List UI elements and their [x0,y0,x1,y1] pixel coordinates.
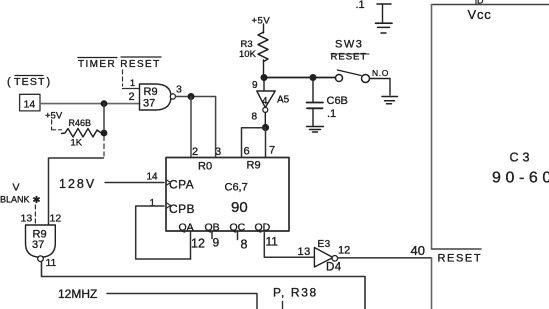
capacitor .1 (top) [356,0,393,23]
wire junction down to IC pin 2 [190,97,192,158]
svg-text:D4: D4 [326,262,342,274]
svg-text:8: 8 [241,238,248,252]
svg-text:9: 9 [213,236,220,250]
switch SW3 [331,39,389,83]
pin stub 9 [211,231,213,239]
svg-text:12MHZ: 12MHZ [58,287,97,301]
wire junction down to IC pin 7 [265,128,267,158]
svg-text:3: 3 [176,84,182,96]
svg-text:R9: R9 [144,86,158,98]
wire switch to ground [370,79,391,96]
svg-text:C6B: C6B [327,95,348,107]
svg-text:128V: 128V [59,177,96,191]
inverter A5 [257,91,290,112]
svg-text:1: 1 [130,78,135,88]
svg-text:.1: .1 [327,108,336,120]
box P,R38 [273,286,318,309]
wire A5 output down [264,112,266,127]
svg-text:37: 37 [143,98,155,110]
svg-text:2: 2 [129,91,135,103]
svg-text:E3: E3 [318,239,331,250]
ground (SW3) [382,97,398,104]
svg-text:QA: QA [179,222,194,234]
svg-text:Vcc: Vcc [468,7,492,22]
svg-text:QD: QD [255,222,271,234]
svg-text:TIMER RESET: TIMER RESET [78,59,161,70]
svg-text:12: 12 [191,237,205,251]
resistor R46B [62,118,104,149]
wire NAND output to IC pins 2,3 [176,97,216,158]
wire 128V to pin 14 [105,182,164,184]
svg-text:✱: ✱ [33,195,41,206]
IC 7490 counter [166,158,289,234]
wire +5V to R3 [263,24,265,33]
svg-text:1K: 1K [71,138,83,149]
big box C3 [432,0,549,309]
svg-text:11: 11 [266,235,279,249]
wire (dashed) below R46B junction [103,136,105,156]
svg-text:R46B: R46B [69,118,92,128]
pin stub 8 [237,231,239,240]
wire (dashed) BLANK to pin 13 [34,205,36,224]
svg-text:90: 90 [231,199,248,216]
label TIMER RESET [78,57,161,70]
svg-text:CPB: CPB [169,202,195,216]
svg-text:R0: R0 [198,161,212,173]
svg-text:1: 1 [150,198,156,209]
ground (top cap) [378,27,390,33]
svg-text:RESET: RESET [331,52,368,63]
svg-text:6: 6 [244,146,250,158]
svg-text:2: 2 [192,146,198,158]
svg-text:TEST: TEST [14,76,46,88]
inverter E3 [314,239,341,274]
svg-text:14: 14 [24,99,36,111]
connector box 14 [20,94,40,111]
svg-text:N.O: N.O [372,68,389,78]
svg-text:90-60: 90-60 [492,170,549,187]
svg-text:C3: C3 [510,151,534,165]
svg-text:8: 8 [252,112,258,123]
wire junction to A5 [263,78,265,92]
svg-text:D: D [477,0,484,6]
svg-text:): ) [47,76,51,88]
svg-text:+5V: +5V [45,111,63,122]
pin stub 12 [190,231,192,259]
svg-text:13: 13 [298,246,311,258]
label (TEST) [7,76,50,89]
junction at (313,77.5) [310,74,317,81]
svg-text:C6,7: C6,7 [225,182,248,194]
pin stub 11 / wire to E3 [264,231,314,257]
svg-text:12: 12 [50,213,62,225]
svg-text:13: 13 [21,213,33,225]
wire (dashed) TIMER RESET to NAND pin 1 [122,70,124,86]
svg-text:(: ( [7,76,12,88]
svg-text:14: 14 [147,172,159,183]
svg-text:+5V: +5V [252,16,271,27]
svg-text:BLANK: BLANK [0,195,30,205]
svg-text:V: V [13,182,20,194]
svg-text:P, R38: P, R38 [273,286,318,300]
svg-text:9: 9 [252,80,258,91]
wire junction-to-junction vertical [103,104,105,130]
wire R3 to junction [263,60,265,78]
wire rail to switch [264,77,336,79]
resistor R3 [239,32,268,61]
svg-text:A5: A5 [277,95,290,106]
svg-text:10K: 10K [239,49,257,60]
svg-text:37: 37 [32,239,44,251]
wire CPB feedback loop [136,206,191,259]
junction at (191,96.5) [188,93,195,100]
junction at (265.5,127.5) [262,124,269,131]
svg-text:.1: .1 [356,0,365,11]
wire from box 14 to NAND pin 2 [40,103,140,105]
svg-text:RESET: RESET [438,253,483,265]
svg-text:40: 40 [411,243,425,258]
svg-text:CPA: CPA [169,178,194,192]
wire junction left to IC pin 6 [242,128,266,157]
svg-text:3: 3 [215,146,221,158]
svg-text:R9: R9 [247,160,261,172]
junction at (104,103.6) [101,100,108,107]
svg-text:12: 12 [338,245,350,257]
wire E3 output to big box RESET pin [338,257,432,259]
svg-text:11: 11 [46,257,57,269]
wire to vertical NAND pin 12 [49,158,104,224]
wire (dashed) +5V to R46B [52,120,62,130]
label V BLANK* [0,182,41,207]
junction at (104,133) [101,130,108,137]
capacitor C6B [307,78,348,126]
svg-text:4: 4 [262,96,268,107]
nand gate R9 37 (horizontal) [140,84,176,110]
wire NAND(v) output to long bottom rail, P,R38 box right edge [42,262,366,309]
nand gate R9 37 (vertical) [26,225,56,262]
junction at (264,77.5) [261,74,268,81]
wire 12MHZ [107,294,257,309]
svg-text:SW3: SW3 [335,39,363,51]
svg-text:7: 7 [269,145,275,157]
ground (C6B) [307,127,324,133]
